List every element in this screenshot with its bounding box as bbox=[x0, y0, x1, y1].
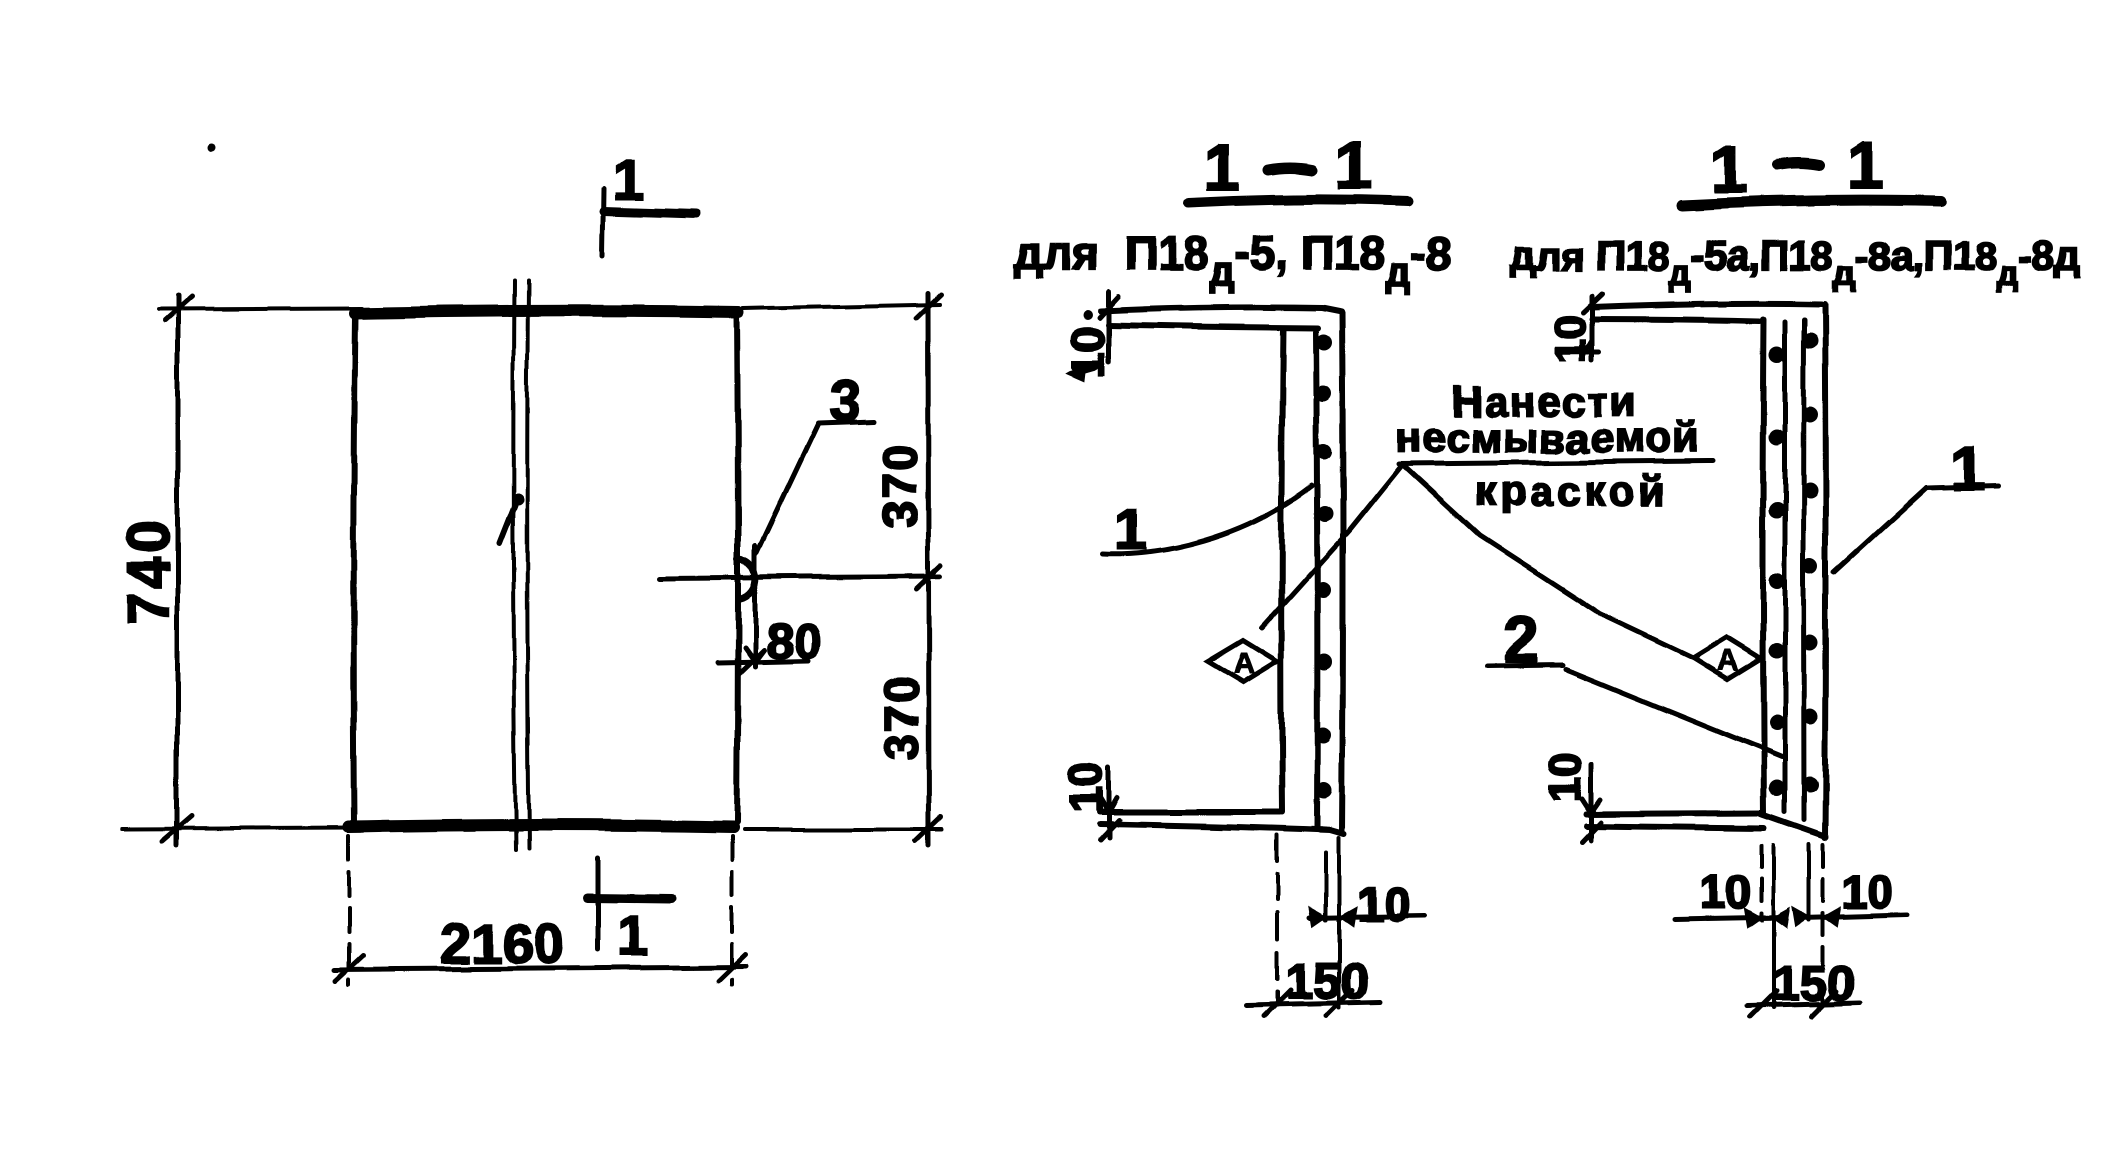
hole detail semicircle bbox=[738, 559, 755, 599]
svg-text:370: 370 bbox=[874, 442, 927, 528]
svg-text:1: 1 bbox=[1950, 435, 1984, 504]
svg-text:10: 10 bbox=[1842, 866, 1893, 918]
dim 10 web: arrows bbox=[1310, 908, 1356, 926]
svg-text:краской: краской bbox=[1475, 467, 1668, 514]
dim 10 top: vertical line bbox=[1590, 296, 1595, 360]
tick 80 bottom bbox=[739, 651, 763, 674]
extension below web left (dashed) bbox=[1275, 835, 1279, 1005]
extension line bottom dim right bbox=[730, 836, 734, 985]
svg-text:1: 1 bbox=[617, 904, 648, 967]
section mark 1 bottom: flag bbox=[588, 898, 672, 899]
arrowhead 80 bottom bbox=[745, 648, 764, 662]
web inner line 1 bbox=[1783, 322, 1789, 812]
panel joint double line bbox=[513, 281, 516, 850]
dim 150: line bbox=[1247, 1002, 1380, 1005]
dim 10 bottom: vertical line bbox=[1589, 765, 1594, 840]
extension line right middle through hole bbox=[660, 576, 940, 578]
dimension line right vertical bbox=[928, 293, 929, 845]
web left line bbox=[1281, 328, 1283, 812]
svg-text:A: A bbox=[1717, 644, 1739, 677]
tick top 740 bbox=[164, 296, 191, 320]
svg-text:10: 10 bbox=[1060, 762, 1112, 813]
dim 10 bottom left: arrows bbox=[1745, 909, 1789, 927]
dim 10 top: tick bbox=[1100, 297, 1119, 318]
dim 10 top: tick bbox=[1583, 294, 1602, 312]
tick right top bbox=[916, 294, 941, 318]
svg-text:10: 10 bbox=[1062, 327, 1114, 378]
extension below web: right dashed bbox=[1821, 845, 1825, 1008]
dim 10 top: arrow bbox=[1585, 340, 1599, 352]
title 1-1 middle: dash bbox=[1269, 168, 1313, 170]
extension line right 80 bbox=[718, 661, 808, 663]
joint center dot bbox=[512, 493, 524, 505]
dim 150: ticks bbox=[1264, 990, 1352, 1016]
extension line top left bbox=[158, 308, 362, 309]
dim 10 top: vertical line bbox=[1107, 292, 1112, 362]
bottom web closure diagonal bbox=[1761, 814, 1826, 837]
panel outline right edge bbox=[737, 312, 738, 822]
title underline middle bbox=[1188, 199, 1408, 203]
bottom web closure bbox=[1330, 830, 1344, 834]
leader 1 curve bbox=[1102, 486, 1312, 554]
dim 10 bottom: arrowhead bbox=[1582, 799, 1600, 813]
svg-text:740: 740 bbox=[116, 516, 181, 625]
svg-text:10: 10 bbox=[1546, 314, 1595, 363]
section mark 1 top: vertical stroke bbox=[603, 189, 604, 256]
top flange lower line bbox=[1109, 325, 1318, 328]
svg-text:150: 150 bbox=[1772, 955, 1855, 1011]
dim 10 bottom left: line bbox=[1675, 917, 1786, 919]
web left line bbox=[1763, 319, 1764, 815]
panel outline top edge (thick) bbox=[355, 311, 739, 313]
svg-text:150: 150 bbox=[1285, 953, 1368, 1009]
svg-text:10: 10 bbox=[1541, 753, 1590, 802]
note leader to right diamond bbox=[1404, 466, 1693, 658]
svg-text:1: 1 bbox=[1114, 497, 1146, 562]
extension below web: left dashed bbox=[1759, 845, 1763, 920]
tick bottom 740 bbox=[163, 816, 192, 841]
section mark 1 bottom: vertical stroke bbox=[596, 858, 601, 949]
top flange upper line bbox=[1101, 307, 1322, 311]
svg-text:2: 2 bbox=[1504, 604, 1540, 676]
svg-text:10: 10 bbox=[1700, 866, 1751, 918]
svg-text:80: 80 bbox=[766, 613, 822, 669]
dim 10 bottom: arrowhead bbox=[1100, 797, 1117, 812]
web inner line 2 bbox=[1801, 320, 1807, 820]
extension below web: right solid bbox=[1807, 845, 1811, 920]
dim 10 bottom: vertical line bbox=[1107, 768, 1112, 838]
svg-text:A: A bbox=[1233, 647, 1255, 680]
mesh dots bbox=[1315, 334, 1333, 798]
bottom flange lower line bbox=[1100, 824, 1330, 830]
svg-text:1: 1 bbox=[1335, 128, 1372, 202]
note leader to middle section bbox=[1262, 464, 1403, 628]
extension line bottom dim left bbox=[347, 836, 351, 985]
svg-text:10: 10 bbox=[1357, 879, 1410, 932]
leader 2 underline bbox=[1487, 665, 1563, 666]
web inner mesh line bbox=[1316, 332, 1317, 828]
leader 1 right: horizontal bbox=[1926, 486, 1998, 488]
dim line 80 vertical bbox=[753, 546, 758, 667]
svg-text:3: 3 bbox=[829, 369, 860, 432]
title underline right bbox=[1682, 200, 1941, 205]
top flange lower line bbox=[1592, 319, 1760, 321]
extension below web right bbox=[1337, 838, 1341, 1008]
diamond A middle bbox=[1208, 640, 1277, 682]
dim 150 right: ticks bbox=[1750, 991, 1837, 1017]
tick left 2160 bbox=[336, 956, 363, 981]
joint center mark bbox=[500, 505, 515, 543]
dim 10 top: arrow bbox=[1082, 367, 1096, 371]
diamond A right bbox=[1693, 637, 1761, 679]
stray dot near flange bbox=[1083, 310, 1093, 320]
dim 10 bottom right: line bbox=[1801, 915, 1907, 918]
extension line right top bbox=[744, 304, 940, 308]
panel joint double line 2 bbox=[527, 281, 529, 848]
leader 2 line bbox=[1566, 669, 1782, 757]
leader 3 line bbox=[757, 424, 818, 553]
tick right 2160 bbox=[719, 955, 746, 981]
web right line bbox=[1342, 312, 1343, 833]
svg-text:370: 370 bbox=[876, 674, 929, 760]
leader 1 right: diagonal bbox=[1834, 488, 1926, 572]
tick right middle bbox=[916, 565, 941, 589]
dim 10 bottom: tick bbox=[1582, 822, 1601, 842]
bottom flange lower line bbox=[1586, 826, 1764, 828]
section mark 1 top: flag bbox=[604, 211, 697, 214]
panel outline left edge bbox=[353, 315, 355, 824]
mesh dots left column bbox=[1769, 347, 1785, 796]
note underline bbox=[1399, 461, 1712, 464]
top flange upper line bbox=[1592, 303, 1822, 307]
extension below web: left solid bbox=[1771, 845, 1775, 1008]
dim 150 right: line bbox=[1747, 1003, 1860, 1006]
dim 10 bottom: tick bbox=[1100, 820, 1119, 840]
dimension line 740 vertical bbox=[175, 295, 180, 845]
svg-text:1: 1 bbox=[613, 148, 644, 211]
bottom flange upper line bbox=[1100, 809, 1280, 815]
tick right bottom bbox=[916, 817, 941, 841]
extension line right bottom bbox=[744, 827, 942, 831]
leader 3 underline bbox=[818, 421, 874, 423]
svg-text:1: 1 bbox=[1203, 130, 1240, 204]
panel outline bottom edge (thick) bbox=[349, 825, 733, 827]
title 1-1 right: dash bbox=[1778, 163, 1819, 165]
dim 10 web: line bbox=[1310, 916, 1425, 918]
svg-text:несмываемой: несмываемой bbox=[1396, 414, 1699, 461]
stray ink dot bbox=[207, 144, 215, 152]
dim 10 bottom right: arrows bbox=[1793, 908, 1840, 926]
dimension line 2160 bbox=[335, 967, 746, 970]
web right line bbox=[1825, 304, 1826, 838]
svg-text:2160: 2160 bbox=[440, 912, 565, 975]
bottom flange upper line bbox=[1586, 813, 1761, 814]
extension short mid bbox=[1324, 852, 1328, 920]
mesh dots right column bbox=[1802, 333, 1818, 792]
svg-text:1: 1 bbox=[1711, 132, 1748, 206]
top flange right corner bbox=[1322, 308, 1342, 312]
svg-text:1: 1 bbox=[1847, 128, 1884, 202]
extension line bottom left bbox=[122, 828, 360, 829]
